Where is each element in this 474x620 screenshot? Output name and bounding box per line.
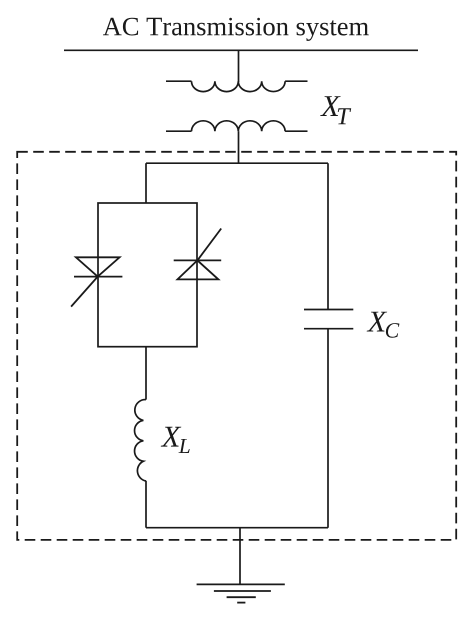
node A horizontal wire [146,162,328,164]
wire inductor to bottom node [145,481,147,528]
wire capacitor to bottom node [327,329,329,528]
wire node A to TCR box [145,163,147,203]
ground [197,584,285,602]
wire TCR box to inductor [145,347,147,400]
SVC enclosure dashed box [17,152,456,540]
label: AC Transmission system [103,18,369,41]
wire bottom node to ground [239,528,241,585]
wire node A to capacitor [327,163,329,309]
wire bus to transformer [238,50,240,82]
transformer T1 primary winding [166,81,308,91]
thyristor V1 [71,257,122,306]
wire transformer to node A [238,131,240,163]
bus bar [64,49,418,51]
label XT [320,96,351,124]
label XC [367,312,400,338]
thyristor V2 [174,229,222,280]
transformer T1 secondary winding [166,121,308,131]
capacitor XC plates [304,310,353,329]
bottom node wire [146,527,328,529]
inductor XL [135,400,146,481]
label XL [161,427,190,453]
TCR valve box [98,203,197,347]
